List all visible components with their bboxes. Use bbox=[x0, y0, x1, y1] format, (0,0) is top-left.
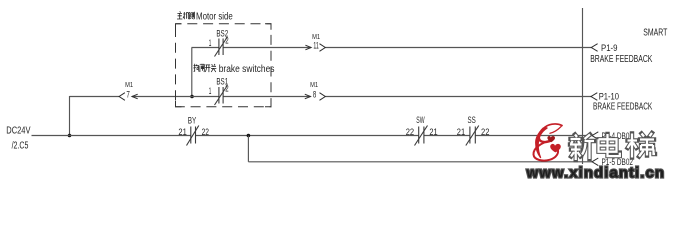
svg-text:8: 8 bbox=[313, 89, 316, 99]
svg-text:P1-10: P1-10 bbox=[599, 91, 619, 102]
梯 bbox=[628, 134, 638, 158]
svg-text:BRAKE FEEDBACK: BRAKE FEEDBACK bbox=[593, 101, 653, 112]
svg-text:11: 11 bbox=[313, 41, 318, 51]
contact BS2 (NC) bbox=[215, 38, 228, 57]
svg-text:SW: SW bbox=[416, 115, 425, 125]
watermark logo: small heart bbox=[547, 136, 555, 142]
wire: SMART block vertical bus bbox=[582, 8, 584, 164]
wire: link from BS2 input down to BS1 node bbox=[192, 47, 220, 49]
connector M1 pin 8 (arrow + chevron) bbox=[305, 93, 326, 101]
label: 抱闸开关 (CJK drawn) bbox=[193, 64, 216, 72]
svg-text:/2.C5: /2.C5 bbox=[12, 140, 29, 151]
svg-text:21: 21 bbox=[457, 127, 465, 137]
svg-text:BY: BY bbox=[188, 116, 197, 126]
svg-text:brake switches: brake switches bbox=[219, 64, 275, 75]
svg-text:2: 2 bbox=[225, 84, 228, 94]
svg-text:SMART: SMART bbox=[643, 28, 667, 39]
新 bbox=[570, 135, 582, 161]
contact BY (NC) bbox=[187, 126, 199, 146]
wire: left riser from DC24V node up to M1-7 bbox=[70, 96, 120, 98]
svg-text:DC24V: DC24V bbox=[6, 126, 30, 137]
svg-text:22: 22 bbox=[406, 127, 414, 137]
node: junction BS1/BS2 bbox=[190, 95, 194, 99]
watermark: 新电梯 outlined characters bbox=[570, 133, 655, 160]
svg-text:www.xindianti.cn: www.xindianti.cn bbox=[526, 165, 665, 182]
svg-text:21: 21 bbox=[178, 127, 186, 137]
svg-text:7: 7 bbox=[126, 89, 129, 99]
svg-text:M1: M1 bbox=[125, 82, 133, 89]
contact SW (NC) bbox=[415, 126, 428, 146]
connector P1-5 chevron bbox=[592, 158, 598, 166]
connector M1 pin 7 (chevron + arrow, mirrored) bbox=[119, 93, 138, 101]
contact SS (NC) bbox=[466, 126, 479, 146]
新 white core bbox=[570, 135, 582, 161]
svg-text:SS: SS bbox=[468, 115, 476, 125]
wire: BS1 output to P1-10 bbox=[223, 96, 311, 98]
contact BS1 (NC) bbox=[215, 86, 228, 105]
connector P1-9 chevron bbox=[591, 44, 597, 52]
wire: branch down to P1-5 row bbox=[247, 136, 249, 162]
svg-text:Motor side: Motor side bbox=[196, 12, 233, 23]
svg-text:22: 22 bbox=[481, 127, 489, 137]
svg-text:22: 22 bbox=[202, 127, 209, 137]
wire: BS2 output to P1-9 (top wire y=47.5) bbox=[223, 47, 311, 49]
node: junction DC24V bbox=[68, 134, 72, 138]
svg-text:1: 1 bbox=[209, 86, 212, 96]
svg-text:P1-9: P1-9 bbox=[601, 42, 618, 53]
svg-text:BRAKE FEEDBACK: BRAKE FEEDBACK bbox=[590, 54, 652, 65]
connector P1-4 chevron bbox=[592, 132, 598, 140]
电 bbox=[599, 134, 620, 156]
connector P1-10 chevron bbox=[591, 93, 597, 101]
dashed enclosure: Motor side box bbox=[176, 24, 272, 107]
node: junction branch bbox=[247, 134, 251, 138]
label: 主机侧 (CJK drawn) bbox=[177, 11, 194, 19]
connector M1 pin 11 (arrow + chevron) bbox=[305, 44, 325, 52]
电 white core bbox=[599, 134, 620, 156]
watermark logo: thick crescent of mark bbox=[536, 128, 547, 158]
wire: DC24V rail y=135.6 bbox=[32, 135, 191, 137]
梯 white core bbox=[628, 134, 638, 158]
watermark logo: red script mark bbox=[533, 124, 562, 161]
wire: M1-7 to BS1 (middle wire y=96) bbox=[132, 96, 219, 98]
svg-text:M1: M1 bbox=[310, 82, 318, 89]
svg-text:21: 21 bbox=[429, 127, 437, 137]
svg-text:2: 2 bbox=[225, 36, 228, 46]
watermark logo: big heart bbox=[550, 144, 561, 152]
svg-text:1: 1 bbox=[209, 38, 212, 48]
